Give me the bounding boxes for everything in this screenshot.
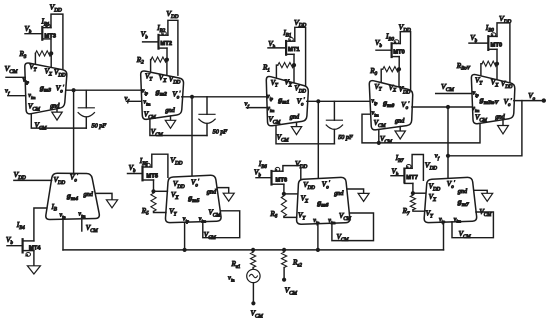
node gm3 output junction [72,88,76,92]
svg-text:gnd: gnd [495,114,505,121]
wire junction to VX [166,60,168,76]
svg-text:gnd: gnd [395,117,405,124]
node Vo terminal [542,98,546,102]
transistor MT0 of ItoV stage [469,24,502,50]
svg-text:MT6: MT6 [276,178,288,184]
op-amp gm0 block [369,81,412,130]
ground gm7 [474,190,493,201]
capacitor C2 50pF [199,97,228,136]
node gm2 output junction [190,95,194,99]
power VDD gm5 [170,155,183,166]
transistor MT1 [268,29,300,55]
power VDD cell2 [166,9,179,20]
svg-text:vip: vip [60,212,67,219]
ground gm1 [291,122,301,134]
svg-text:MT0: MT0 [393,50,405,56]
svg-text:vip: vip [313,218,320,225]
resistor Rs2 [282,252,303,268]
resistor R2 [136,56,167,66]
source vin [228,268,260,283]
node MT3 drain junction [49,51,53,55]
wire MT0 drain [398,57,400,70]
node vin VCM terminal [251,301,264,319]
resistor R3 [19,50,52,60]
svg-text:MT4: MT4 [29,245,41,251]
wire junction to VX gm5 [154,190,168,192]
wire gm1 VCM bottom [276,125,334,144]
ground gm0 [395,127,405,140]
svg-text:gnd: gnd [334,190,344,197]
svg-text:MT2: MT2 [160,41,172,47]
svg-text:vip: vip [23,78,30,85]
transistor MT5 [128,157,159,180]
wire MT1 drain [293,54,295,65]
wire junction to VX gm7 [413,192,426,194]
svg-text:gnd: gnd [207,188,217,195]
node Rs1 bus junction [251,248,255,252]
node VCM input gmItoV [436,82,472,94]
wire R5 to VY gm5 [154,211,167,212]
power VDD gm6 [295,159,308,170]
svg-text:vip: vip [142,88,149,95]
resistor RItoV [456,61,497,72]
wire gm7 VCM loop [452,212,493,240]
svg-text:vip: vip [183,216,190,223]
resistor R5 [141,193,156,217]
svg-text:50 pF: 50 pF [92,122,107,129]
wire Vo feedback to vf [448,101,522,156]
transistor MT0 [375,32,405,57]
wire MT7 drain [412,183,414,193]
wire gm0 out to gm7 / vf node [447,107,449,178]
node ItoV drain junction [495,62,499,66]
wire gm4 vim VCM stub [82,219,99,234]
wire gm0 output [412,106,473,108]
wire VDD rail MT1 source [295,27,306,86]
svg-text:vim: vim [78,212,85,219]
svg-text:vim: vim [454,217,461,224]
wire junction to VX [496,64,498,80]
node vf input stub gm1 [245,101,268,109]
node vf input stub gm2 [125,95,142,103]
ground MT4 [27,251,40,274]
wire gm0 vim to VCM net [362,114,480,143]
wire junction to VX [293,65,295,83]
op-amp gm2 block [141,71,184,121]
wire gm0 VCM pin [379,130,393,145]
resistor R7 [402,195,416,217]
wire gm4 IB to MT4 [34,208,47,241]
ground gm4 [95,193,117,207]
power VDD cell1 [50,3,63,14]
op-amp gm7 block [424,177,492,224]
wire VDD rail MT2 source [168,20,178,75]
ground gm5 [217,188,234,202]
wire gm5 VCM loop [203,211,240,241]
wire VDD rail ItoV source [497,23,510,83]
svg-text:gnd: gnd [84,191,94,198]
transistor MT2 [141,24,172,48]
capacitor C1 50pF [78,90,106,129]
node gm5 vip bus junction [183,248,187,252]
svg-text:gnd: gnd [165,107,175,114]
node MT2 drain junction [165,58,169,62]
svg-text:vim: vim [143,99,150,106]
ground gmItoV [498,119,509,133]
wire VDD rail MT5 source [152,154,168,177]
node MT5 drain junction [151,189,155,193]
wire gm1 output [307,100,370,102]
wire gm5 vip to bus [184,222,186,250]
wire gm4 vip to bus [62,219,64,250]
op-amp gm6 block [297,177,352,225]
wire junction to VX [398,69,400,87]
wire VDD rail MT0 source [400,32,410,90]
node gm6 vip bus junction [316,248,320,252]
svg-text:MT0: MT0 [491,42,503,48]
wire MT2 drain [166,48,168,60]
wire gm3 out to gm4 [73,90,75,173]
svg-text:gnd: gnd [50,103,60,110]
svg-text:vim: vim [472,106,479,113]
power VDD gm4 [14,170,52,181]
wire gm2 out to gm5 [191,97,193,176]
svg-text:vip: vip [473,90,480,97]
wire gm3 output [66,89,142,91]
wire R6 to VY gm6 [284,216,297,217]
wire R2 to VT [150,60,152,73]
node gm0 output junction [446,105,450,109]
wire VDD rail MT3 source [51,14,63,70]
resistor Rs1 [231,252,256,270]
svg-text:MT7: MT7 [406,175,418,181]
op-amp gmItoV block [471,74,514,123]
wire VDD rail MT6 source [283,166,301,180]
wire vin to VCM [252,283,254,304]
transistor MT4 [6,221,41,257]
wire gm6 VCM loop [332,213,374,243]
node VCM input stub gm3 [5,64,26,77]
wire gm6 vip to bus [317,224,319,250]
wire Rs2 to VCM [283,268,285,280]
svg-text:vip: vip [439,217,446,224]
svg-text:MT5: MT5 [146,173,158,179]
svg-text:vim: vim [28,93,35,100]
capacitor C3 50pF [326,101,353,144]
ground gm3 [52,109,62,120]
svg-text:vim: vim [372,110,379,117]
resistor R6 [269,196,286,220]
transistor MT6 [254,160,288,185]
node MT1 drain junction [292,63,296,67]
power VDD cell3 [294,18,307,29]
svg-text:gnd: gnd [290,114,300,121]
node Rs2 VCM terminal [282,278,298,297]
node vf input stub gm3 [5,87,26,95]
wire gm1 out to gm6 [317,101,319,178]
svg-text:vim: vim [267,106,274,113]
ground gm2 [165,116,175,128]
wire gm3 VCM bottom [31,114,86,132]
wire junction to VX gm6 [284,193,298,195]
op-amp gm4 block [46,173,100,219]
wire junction to VX [50,53,52,67]
wire input bus [63,249,444,251]
ground gm6 [347,189,369,201]
wire MT6 drain [283,184,285,194]
node MT7 drain junction [411,191,415,195]
wire gmItoV output Vo [514,92,544,102]
wire VDD rail MT7 source [412,155,423,181]
wire R7 to VY gm7 [413,210,425,211]
wire ItoV drain [496,49,498,63]
resistor R0 [369,67,399,78]
node gm1 output junction [316,99,320,103]
transistor MT7 [391,154,418,183]
node MT6 drain junction [282,192,286,196]
power VDD cell5 [499,14,512,25]
power VDD gm7 [425,160,438,171]
op-amp gm5 block [165,175,221,223]
node MT0 drain junction [397,67,401,71]
wire gm7 vip to bus [443,222,445,250]
wire MT5 drain [153,180,155,191]
power VDD cell4 [399,23,412,34]
wire R1 to VT [276,65,277,78]
transistor MT3 [25,18,57,40]
svg-text:50 pF: 50 pF [338,134,353,141]
svg-text:gnd: gnd [458,188,468,195]
wire gm2 VCM bottom [150,119,207,138]
op-amp gm1 block [266,76,308,125]
wire gm2 output [182,96,267,98]
svg-text:vip: vip [267,94,274,101]
wire R0 to VT [381,69,383,83]
op-amp gm3 block [23,63,67,114]
node Rs2 bus junction [282,248,286,252]
node gm0 VCM bottom junction [377,141,381,145]
wire RItoV to VT [481,64,482,76]
wire MT3 drain [50,39,52,54]
node vf [435,153,450,161]
svg-text:MT1: MT1 [288,47,300,53]
resistor R1 [262,63,294,74]
wire R3 to VT [34,53,36,64]
svg-text:vip: vip [371,98,378,105]
svg-text:50 pF: 50 pF [213,129,228,136]
